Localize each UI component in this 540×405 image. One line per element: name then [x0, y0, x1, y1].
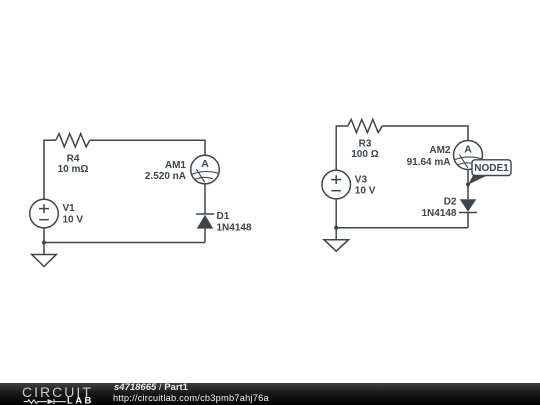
wire R3 right to AM2 top — [382, 126, 468, 141]
svg-text:R4: R4 — [67, 153, 80, 164]
resistor R3 — [348, 119, 382, 132]
node dot NODE1 on wire — [466, 183, 470, 187]
diode D2 — [459, 199, 477, 212]
svg-text:A: A — [464, 143, 472, 155]
svg-text:AM1: AM1 — [165, 160, 187, 171]
svg-text:NODE1: NODE1 — [474, 163, 509, 174]
resistor R4 — [56, 134, 90, 147]
ammeter AM2 — [454, 141, 483, 170]
svg-text:D1: D1 — [217, 211, 230, 222]
footer url line — [113, 393, 269, 403]
wire D1 to bottom rail — [204, 229, 206, 243]
voltage source V1 — [30, 199, 59, 228]
ground left circuit — [32, 255, 57, 267]
svg-text:LAB: LAB — [67, 396, 94, 405]
svg-text:100 Ω: 100 Ω — [351, 149, 378, 160]
ammeter AM1 — [191, 155, 220, 184]
wire bottom rail right circuit — [336, 227, 468, 229]
svg-text:V3: V3 — [355, 175, 368, 186]
svg-text:A: A — [201, 158, 209, 170]
wire D2 to bottom rail — [467, 213, 469, 228]
wire right-circuit top-left corner to V3 top — [336, 126, 348, 170]
svg-text:10 mΩ: 10 mΩ — [58, 164, 89, 175]
svg-text:AM2: AM2 — [429, 145, 451, 156]
svg-text:10 V: 10 V — [355, 186, 376, 197]
wire V3 bottom to rail and ground stub — [335, 199, 337, 240]
diode D1 — [196, 214, 214, 229]
wire AM2 bottom to D2 — [467, 170, 469, 200]
footer title line — [114, 383, 188, 392]
node label NODE1 box — [472, 160, 511, 176]
svg-text:91.64 mA: 91.64 mA — [407, 157, 451, 168]
wire R4 right to AM1 top — [90, 140, 205, 155]
svg-text:1N4148: 1N4148 — [217, 222, 252, 233]
svg-text:10 V: 10 V — [63, 215, 84, 226]
svg-text:1N4148: 1N4148 — [421, 208, 456, 219]
wire left-circuit top-left corner to V1 top — [44, 140, 56, 199]
svg-text:2.520 nA: 2.520 nA — [145, 171, 186, 182]
wire bottom rail left circuit — [44, 242, 205, 244]
svg-text:D2: D2 — [444, 197, 457, 208]
node label NODE1 callout tail — [468, 175, 487, 185]
svg-text:V1: V1 — [63, 203, 76, 214]
ground right circuit — [324, 240, 349, 252]
junction dot left circuit — [42, 241, 46, 245]
logo resistor-diode doodle — [24, 399, 66, 404]
junction dot right circuit — [334, 226, 338, 230]
footer bar — [0, 383, 540, 405]
voltage source V3 — [322, 170, 351, 199]
CircuitLab logo — [0, 383, 100, 405]
wire AM1 bottom to D1 — [204, 184, 206, 214]
svg-text:R3: R3 — [359, 138, 372, 149]
wire V1 bottom to rail and ground stub — [43, 228, 45, 255]
